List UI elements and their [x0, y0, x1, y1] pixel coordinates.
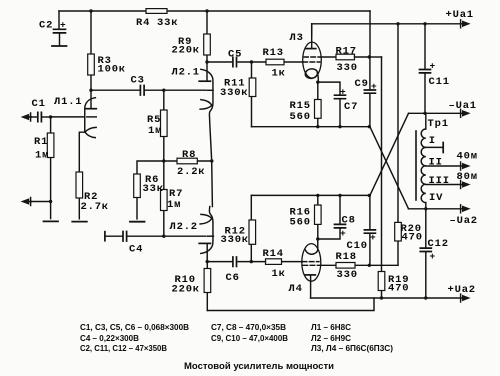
resistor R16 body	[315, 205, 322, 224]
tube L4 anode plate	[306, 274, 316, 276]
wire: R12 branch up to L4 cathode rail	[250, 195, 252, 261]
node junction C4 line / R7	[162, 235, 165, 238]
svg-text:IV: IV	[429, 192, 443, 204]
node junction L4 cathode rail / R16	[316, 194, 319, 197]
resistor R2 body	[76, 172, 83, 198]
resistor R15 body	[315, 100, 322, 119]
node junction top rail / R3	[89, 9, 92, 12]
svg-text:1к: 1к	[272, 68, 286, 80]
svg-text:C4 – 0,22×300В: C4 – 0,22×300В	[80, 333, 139, 343]
node junction -Ua2 / transformer bottom / C12	[424, 207, 427, 210]
wire: +Ua1 rail corner down to R17 node	[369, 11, 371, 57]
svg-text:+Ua1: +Ua1	[446, 9, 474, 21]
svg-text:33к: 33к	[157, 17, 178, 29]
svg-text:2.7к: 2.7к	[81, 201, 109, 213]
svg-text:C3: C3	[131, 75, 145, 87]
svg-text:–Ua1: –Ua1	[449, 100, 477, 112]
wire: diagonal from -Ua1 line to L4 cathode rail	[370, 113, 409, 195]
svg-text:Л2 – 6Н9С: Л2 – 6Н9С	[311, 333, 351, 343]
node junction +Ua1 rail / C11	[423, 22, 426, 25]
node junction L4 cathode rail / C8	[338, 194, 341, 197]
resistor R14 body	[266, 259, 282, 265]
wire: jog from R17 node to screen-feed vertical	[369, 56, 381, 58]
resistor R18 body	[336, 263, 355, 269]
node junction top rail / R9	[205, 9, 208, 12]
svg-text:470: 470	[402, 232, 423, 244]
node junction divider line / C10	[368, 264, 371, 267]
wire: +Ua1 rail	[312, 23, 462, 25]
tube L3 screen grid g2 (dashed)	[304, 56, 321, 58]
capacitor C6 plates	[233, 257, 237, 266]
wire: cathode rail of L3	[252, 126, 370, 128]
node junction -Ua1 / C11 / transformer top	[423, 112, 426, 115]
svg-text:C1, C3, C5, C6 – 0,068×300В: C1, C3, C5, C6 – 0,068×300В	[80, 322, 189, 332]
wire: -Ua1 line	[409, 112, 462, 114]
node junction R1 / lower input	[49, 200, 52, 203]
resistor R4 body	[146, 9, 167, 14]
svg-text:R13: R13	[263, 47, 284, 59]
capacitor C9 plates	[364, 90, 375, 93]
tube L2.2 cathode arcs	[200, 214, 212, 224]
transformer Tp1 winding (sections I-IV)	[421, 129, 426, 203]
svg-text:C2, C11, C12 – 47×350В: C2, C11, C12 – 47×350В	[80, 343, 167, 353]
capacitor C12 branch wire	[425, 209, 427, 298]
svg-text:C11: C11	[429, 76, 450, 88]
svg-text:+: +	[430, 61, 436, 72]
wire: C4 line to grid of L2.2	[127, 235, 206, 237]
terminal T-bar of C4 (feedback tap)	[104, 232, 106, 241]
wire: input to C1	[31, 116, 38, 118]
svg-text:220к: 220к	[172, 45, 200, 57]
tube L2.2 envelope arc and cathode lead	[201, 207, 213, 254]
svg-text:C1: C1	[32, 98, 46, 110]
node junction cathode rail / C7	[338, 125, 341, 128]
wire: C2 top lead	[58, 11, 60, 29]
node junction cathode L4 / R16 / C8	[316, 237, 319, 240]
svg-text:–Ua2: –Ua2	[450, 215, 478, 227]
node junction +Ua2 rail / R19	[380, 296, 383, 299]
tube L1.1 envelope arc and cathode lead	[79, 98, 95, 172]
tube L1.1 anode lead	[90, 90, 92, 108]
svg-text:C12: C12	[428, 238, 449, 250]
svg-text:+: +	[60, 20, 66, 31]
wire: g2 of L4 to R18	[320, 264, 336, 266]
svg-text:Мостовой усилитель мощности: Мостовой усилитель мощности	[184, 361, 334, 371]
node junction R5 / R6 / R7 / R8	[162, 159, 165, 162]
svg-text:C2: C2	[39, 20, 53, 32]
wire: top preamp rail	[59, 10, 370, 12]
wire: C3 line from anode of L1.1 to grid of L2.1	[91, 89, 206, 91]
wire: C2 bottom lead	[59, 34, 61, 46]
svg-text:40м: 40м	[457, 151, 478, 163]
ground bar under R2	[72, 221, 87, 223]
wire: screen-feed vertical x=381.5 down to divider node	[381, 57, 383, 265]
svg-text:330: 330	[337, 62, 358, 74]
resistor R12 body	[249, 220, 256, 244]
svg-text:330: 330	[337, 269, 358, 281]
capacitor C7 plates	[335, 95, 346, 99]
capacitor C11 plates	[420, 70, 431, 73]
wire: C5 line anode L2.1 to R13 node	[207, 61, 252, 63]
node junction C3 line / R5	[162, 89, 165, 92]
wire: C6 line from L2.2 anode to R14	[207, 261, 265, 263]
svg-text:II: II	[429, 157, 443, 169]
resistor R3 body	[88, 54, 95, 75]
svg-text:Л3: Л3	[290, 32, 304, 44]
svg-text:Л3, Л4 – 6П6С(6П3С): Л3, Л4 – 6П6С(6П3С)	[311, 343, 393, 353]
resistor R9 body	[204, 34, 211, 55]
tube L4 screen grid g2 (dashed)	[303, 264, 320, 266]
resistor R1 body	[47, 133, 54, 158]
svg-text:C9: C9	[355, 78, 369, 90]
terminal arrow input top	[29, 113, 31, 121]
svg-text:C7, C8 – 470,0×35В: C7, C8 – 470,0×35В	[211, 322, 286, 332]
node junction L4 cathode rail / C10 / diagonal	[368, 194, 371, 197]
tube L4 cathode	[305, 250, 317, 254]
svg-text:C9, C10 – 47,0×400В: C9, C10 – 47,0×400В	[211, 333, 288, 343]
terminal arrow +Ua2	[460, 294, 462, 302]
capacitor C5 plates	[233, 57, 237, 66]
tube L2.1 grid bar (dash)	[207, 89, 213, 91]
wire: R19 from divider node to +Ua2 rail	[381, 265, 383, 298]
wire: C7 branch	[318, 82, 340, 127]
node junction cathode L3 / R15 / C7	[316, 80, 319, 83]
svg-text:C6: C6	[226, 272, 240, 284]
wire: R15 from cathode node down to rail	[317, 82, 319, 127]
ground C2 terminal bar	[52, 45, 67, 47]
svg-text:C7: C7	[344, 101, 358, 113]
svg-text:220к: 220к	[172, 284, 200, 296]
capacitor C4 plates	[123, 232, 127, 242]
wire: R17 right lead to +Ua1 feed node	[355, 56, 370, 58]
wire: diagonal from L3 cathode rail to -Ua2 line	[370, 127, 409, 209]
svg-text:I: I	[429, 135, 436, 147]
svg-text:+: +	[430, 251, 436, 262]
wire: C10 branch from rail to divider node	[369, 195, 371, 265]
wire: C1 to grid node of L1.1	[42, 116, 51, 118]
resistor R20 body	[395, 222, 402, 241]
node junction R17 / +Ua1 feed / C9	[368, 55, 371, 58]
svg-text:+: +	[340, 87, 346, 98]
tube L2.1 cathode arcs	[200, 100, 212, 110]
tube L2.2 anode plate	[199, 242, 210, 244]
svg-text:1м: 1м	[35, 150, 49, 162]
node junction C6 / R12 / R14	[250, 260, 253, 263]
capacitor C12 plates	[420, 248, 431, 251]
wire: bottom preamp rail	[207, 298, 374, 311]
tube L2.2 grid bar (dash)	[207, 235, 213, 237]
tube U L3 envelope	[303, 42, 322, 78]
svg-text:C8: C8	[342, 215, 356, 227]
svg-text:III: III	[429, 175, 450, 187]
wire: shared cathode line to L2.2	[211, 161, 214, 207]
svg-text:1м: 1м	[148, 125, 162, 137]
wire: grid wire to L1.1	[51, 116, 85, 118]
svg-text:Л1.1: Л1.1	[54, 96, 82, 108]
wire: L4 anode lead to +Ua2 rail	[310, 276, 312, 299]
wire: R11 branch down to cathode rail	[251, 62, 253, 127]
terminal arrow +Ua1	[460, 20, 462, 28]
resistor R13 body	[266, 59, 284, 65]
node junction C1 / R1 / grid wire	[49, 115, 52, 118]
wire: R10 branch down to bottom rail	[206, 262, 208, 311]
wire: R6 branch	[137, 161, 164, 219]
wire: R3 branch from rail to anode node	[90, 11, 92, 90]
tube L2.1 anode lead	[206, 62, 208, 81]
wire: L3 anode feed from +Ua1 rail	[311, 24, 313, 35]
svg-text:+: +	[340, 228, 346, 239]
node junction anode L2.1 / R9 / C5	[205, 60, 208, 63]
resistor R17 body	[336, 54, 355, 60]
svg-text:+: +	[370, 232, 376, 243]
capacitor C3 plates	[140, 86, 144, 96]
wire: R20 vertical from +Ua1 rail	[397, 24, 399, 265]
resistor R19 body	[378, 272, 385, 291]
wire: R8 line	[164, 160, 212, 162]
svg-text:330к: 330к	[221, 234, 249, 246]
node junction anode L1.1 / C3	[89, 89, 92, 92]
wire: +Ua2 rail	[311, 297, 462, 299]
node junction cathode line / R8	[210, 159, 213, 162]
svg-text:33к: 33к	[143, 183, 164, 195]
svg-text:+: +	[371, 81, 377, 92]
wire: -Ua2 line	[409, 208, 462, 210]
wire: C8 branch	[318, 195, 340, 239]
svg-text:Л2.2: Л2.2	[170, 221, 198, 233]
tube L2.1 envelope arc and cathode lead	[201, 69, 213, 161]
wire: R5 branch down	[163, 90, 165, 161]
capacitor C2 plates	[54, 29, 66, 33]
svg-text:80м: 80м	[457, 171, 478, 183]
svg-text:Л2.1: Л2.1	[172, 67, 200, 79]
resistor R5 body	[161, 110, 168, 137]
svg-text:R1: R1	[34, 136, 48, 148]
ground bar under R6	[130, 221, 145, 223]
capacitor C10 plates	[364, 230, 375, 233]
svg-text:560: 560	[290, 111, 311, 123]
op-amp none; tube L3 anode lead	[311, 24, 313, 48]
svg-text:Тр1: Тр1	[428, 118, 449, 130]
tube U L4 envelope	[302, 244, 321, 282]
tube L4 control grid g1 (dashed)	[302, 261, 319, 263]
svg-text:R4: R4	[136, 17, 150, 29]
wire: R1 branch down to ground	[50, 117, 52, 219]
tube L1.1 grid bar (dash)	[87, 116, 97, 118]
tube L1.1 cathode arcs	[85, 127, 96, 137]
wire: R14 / C6 line (g1 of L4)	[282, 261, 303, 263]
resistor R6 body	[134, 174, 141, 198]
wire: L4 cathode lead	[317, 239, 319, 250]
tube L3 cathode	[304, 68, 318, 79]
wire: cathode rail of L4	[251, 194, 370, 196]
resistor R10 body	[204, 269, 211, 293]
wire: C4 left lead	[105, 235, 123, 237]
wire: g2 of L3 to R17	[321, 56, 336, 58]
resistor R7 body	[161, 190, 168, 211]
terminal arrow input bottom	[29, 198, 31, 206]
resistor R8 body	[177, 158, 197, 164]
svg-text:470: 470	[388, 283, 409, 295]
wire: R9 branch	[206, 11, 208, 62]
wire: R13 to grid1 of L3	[252, 61, 303, 63]
wire: R16 branch	[317, 195, 319, 239]
wire: tap III of Tp1 (80m output)	[426, 184, 462, 186]
wire: R2 from cathode to ground	[78, 198, 80, 219]
svg-text:C5: C5	[228, 49, 242, 61]
terminal arrow -Ua2	[460, 205, 462, 213]
terminal arrow 40m	[460, 162, 462, 170]
wire: L2.2 anode lead down	[206, 244, 208, 262]
node junction +Ua1 rail / R20 vertical	[396, 22, 399, 25]
svg-text:330к: 330к	[220, 87, 248, 99]
terminal T-bar of tap I	[442, 143, 444, 153]
wire: R7 branch down to C4 line	[163, 161, 165, 236]
capacitor C1 plates	[38, 112, 42, 121]
wire: tap I of Tp1	[426, 146, 443, 148]
terminal arrow -Ua1	[460, 109, 462, 117]
svg-text:R14: R14	[263, 248, 284, 260]
transformer Tp1 core	[415, 131, 417, 200]
node junction C5 / R11 / R13	[250, 60, 253, 63]
transformer Tp1 top lead	[425, 113, 427, 129]
svg-text:560: 560	[290, 217, 311, 229]
wire: C9 branch from R17 node to cathode rail	[369, 57, 371, 127]
node junction cathode rail / C9	[368, 125, 371, 128]
terminal arrow 80m	[460, 181, 462, 189]
transformer Tp1 bottom lead	[425, 203, 427, 209]
svg-text:R8: R8	[182, 149, 196, 161]
node junction +Ua2 rail / C12	[424, 296, 427, 299]
svg-text:R17: R17	[336, 46, 357, 58]
tube L3 anode plate	[306, 48, 316, 50]
resistor R11 body	[249, 78, 256, 97]
svg-text:1м: 1м	[167, 199, 181, 211]
wire: lower input to R1 node	[31, 201, 51, 203]
svg-text:+Ua2: +Ua2	[448, 284, 476, 296]
ground bar under R1	[44, 220, 59, 222]
wire: tap II of Tp1 (40m output)	[426, 165, 462, 167]
wire: divider horizontal R18 node line	[355, 264, 398, 266]
node junction cathode rail / R15	[316, 125, 319, 128]
svg-text:Л4: Л4	[289, 283, 303, 295]
svg-text:Л1 – 6Н8С: Л1 – 6Н8С	[311, 322, 351, 332]
wire: L3 cathode lead	[317, 73, 318, 83]
capacitor C11 branch wire	[424, 24, 426, 114]
svg-text:R18: R18	[336, 251, 357, 263]
svg-text:1к: 1к	[272, 268, 286, 280]
svg-text:2.2к: 2.2к	[177, 166, 205, 178]
tube L3 control grid g1 (dashed)	[303, 61, 320, 63]
capacitor C8 plates	[335, 224, 346, 228]
tube L1.1 anode plate	[86, 108, 96, 110]
node junction L2.2 anode / C6 / R10	[206, 260, 209, 263]
svg-text:100к: 100к	[98, 64, 126, 76]
svg-text:C4: C4	[129, 244, 143, 256]
tube L2.1 anode plate	[199, 80, 210, 82]
